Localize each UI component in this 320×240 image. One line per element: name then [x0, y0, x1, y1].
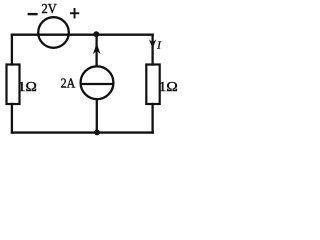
wire left vertical upper	[11, 35, 13, 65]
svg-text:2A: 2A	[61, 76, 76, 91]
voltage source V1 circle	[38, 17, 69, 48]
label minus sign	[28, 13, 38, 15]
current source I1 circle	[81, 66, 114, 99]
node top junction dot	[93, 31, 99, 37]
svg-text:2V: 2V	[42, 2, 57, 17]
wire middle vertical upper	[95, 35, 97, 66]
svg-text:1Ω: 1Ω	[159, 80, 178, 95]
label plus sign vertical	[74, 8, 76, 19]
node bottom junction dot	[94, 130, 100, 136]
label plus sign horizontal	[70, 12, 79, 14]
wire right vertical lower	[151, 104, 153, 133]
current source I1 bar	[81, 83, 114, 85]
wire middle vertical lower	[96, 99, 98, 132]
resistor R2 right 1ohm body	[146, 65, 159, 105]
arrow current-source direction up	[93, 43, 101, 54]
arrow current I down	[149, 39, 156, 48]
wire left vertical lower	[11, 104, 13, 133]
svg-text:1Ω: 1Ω	[18, 80, 37, 95]
wire top horizontal	[12, 34, 153, 36]
wire bottom horizontal	[12, 131, 153, 133]
svg-text:I: I	[156, 41, 161, 52]
resistor R1 left 1ohm body	[7, 65, 20, 105]
wire right vertical upper	[151, 35, 153, 65]
